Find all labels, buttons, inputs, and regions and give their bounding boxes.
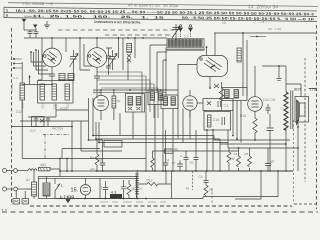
svg-text:•C2a: •C2a: [60, 107, 67, 111]
IF transformer IFT3: [222, 88, 247, 101]
right verticals: [243, 33, 247, 96]
mid-right verticals: [233, 101, 241, 143]
speaker box: [295, 97, 309, 126]
svg-text:45 m·6394 42 45 35 45)ʍ: 45 m·6394 42 45 35 45)ʍ: [128, 3, 179, 9]
antenna symbol: [22, 19, 25, 30]
filter choke L5: [136, 172, 138, 199]
junction dots V1 top: [30, 37, 53, 53]
nested corners right of IFT1: [150, 45, 167, 92]
svg-text:50. ·5·50·25 50·50·25·25·50·50: 50. ·5·50·25 50·50·25·25·50·50·25·50 5. …: [182, 16, 314, 22]
label C1: [100, 186, 103, 190]
capacitor under V1: [49, 74, 55, 85]
trimmer under V3: [214, 84, 219, 88]
chassis dashed bottom line: [30, 205, 292, 207]
coil value labels: [10, 76, 70, 109]
svg-text:C18: C18: [213, 118, 219, 122]
stepped bus wires center: [93, 72, 166, 118]
coil L3: [52, 84, 57, 100]
IF transformer IFT2: [126, 94, 145, 113]
resistor R1: [38, 163, 60, 171]
V3 left grid lead: [178, 65, 197, 101]
IF transformer IFT1 winding: [127, 44, 132, 53]
switch lamp branch: [55, 178, 60, 198]
long vertical x88: [89, 98, 103, 140]
transformer top leads: [286, 84, 316, 97]
dashed vertical x212: [211, 188, 213, 204]
label R13: [139, 179, 153, 191]
svg-text:ks: ks: [186, 187, 190, 191]
variable capacitor VC2: [109, 50, 116, 70]
V4 label: [93, 91, 101, 95]
tube V3: [197, 33, 228, 88]
capacitor C10: [163, 130, 168, 171]
osc section lower windings: [161, 95, 178, 109]
mains terminal 1: [3, 169, 29, 173]
rail y151: [173, 150, 239, 152]
tube V4: [93, 90, 108, 120]
junction dots lower right: [238, 143, 299, 172]
capacitor C6: [265, 148, 271, 171]
hatched block 2 under V2: [68, 74, 74, 81]
hatched block under V2: [59, 74, 65, 81]
AVC wire: [262, 66, 286, 84]
labels R above rail: [234, 152, 249, 156]
svg-text:10.: 10.: [222, 21, 227, 25]
svg-text:4xC13a: 4xC13a: [52, 127, 63, 131]
wire top of IF cans: [93, 89, 166, 91]
table row 2 values: [6, 14, 314, 22]
mains transformer primary winding: [43, 177, 50, 199]
svg-text:4.3: 4.3: [111, 190, 116, 194]
resistor Rd zigzag below rail: [204, 185, 208, 197]
label C4d: [199, 175, 203, 179]
mains coil small: [28, 169, 37, 171]
junction bottom dots: [29, 76, 53, 85]
capacitor C4b: [103, 181, 108, 199]
svg-text:C·x: C·x: [224, 104, 229, 108]
svg-text:M1: M1: [190, 161, 194, 165]
wire antenna to caps: [24, 29, 36, 31]
long vertical x72: [71, 121, 73, 171]
output transformer T2 primary: [284, 92, 288, 130]
pencil label 10: [222, 20, 265, 25]
svg-text:Condensatorerna se ant i affer: Condensatorerna se ant i afferati Skrift…: [94, 20, 141, 25]
nested bus rail C: [99, 122, 298, 148]
wire top rail RF: [24, 37, 167, 39]
svg-text:R13: R13: [147, 179, 153, 183]
svg-text:1.3: 1.3: [184, 35, 189, 39]
svg-text:C4x C2x: C4x C2x: [263, 98, 276, 102]
oscillator coil L9: [166, 35, 205, 51]
svg-text:0: 0: [6, 14, 8, 18]
svg-text:FT: FT: [172, 161, 176, 165]
pencil dashes bottom: [100, 201, 166, 203]
svg-text:R): R): [210, 188, 213, 192]
tube V6: [248, 66, 263, 118]
label FT: [172, 161, 176, 165]
capacitor C13: [34, 117, 38, 127]
osc box left wire: [166, 47, 178, 90]
junction dot AVC: [278, 65, 280, 67]
wire coil outputs row: [12, 104, 89, 127]
table left tick: [3, 7, 5, 17]
tuning gang dashed link upper: [58, 29, 174, 31]
svg-text:—11. 25. 1.50. 150. 25.: —11. 25. 1.50. 150. 25. 1. 15: [24, 14, 164, 20]
resistor Ra: [95, 140, 99, 171]
rail y158: [22, 158, 146, 160]
speaker labels: [294, 88, 317, 92]
coil L1: [20, 62, 25, 110]
capacitor box C17: [32, 117, 45, 127]
label C8: [99, 159, 103, 163]
label Rd: [210, 188, 213, 192]
label C4c: [165, 159, 169, 163]
top border line: [8, 3, 318, 7]
svg-text:C12: C12: [16, 110, 22, 114]
grid cap wires V1: [31, 50, 52, 74]
resistor R11: [237, 48, 241, 62]
junction dots V2: [79, 37, 98, 39]
wire VC1 bottom: [58, 70, 74, 80]
wire bottom-left elbow: [22, 75, 53, 85]
junction dots IF rail: [118, 37, 144, 39]
capacitor C4c: [121, 180, 126, 199]
junction row under det box: [92, 129, 214, 143]
label 15: [71, 188, 79, 194]
junction dots rail y158: [59, 126, 89, 160]
svg-text:40Ω: 40Ω: [40, 163, 47, 167]
svg-text:C4: C4: [165, 159, 169, 163]
table row 1 values: [6, 9, 314, 17]
svg-text:50: 50: [117, 99, 121, 103]
svg-text:e6: e6: [271, 160, 275, 164]
mains line to rail: [59, 170, 61, 173]
chassis dashed border right outer: [316, 25, 318, 209]
det load box: [204, 112, 231, 131]
IFT1 trimmer marks: [127, 54, 131, 62]
output transformer core: [291, 91, 293, 130]
vline x196: [195, 130, 197, 151]
mains choke AJ: [26, 171, 37, 199]
capacitor C4d below rail: [204, 171, 209, 185]
pencil dash-dot mark: [268, 28, 281, 30]
svg-text:Ra: Ra: [90, 156, 94, 160]
small resistor x168: [151, 151, 173, 171]
svg-text:P.L.: P.L.: [58, 184, 65, 188]
mains long rail: [60, 170, 95, 172]
svg-text:C17: C17: [30, 129, 36, 133]
junction dots on y90: [100, 89, 161, 91]
coil L2: [40, 84, 45, 100]
mains terminal 2: [3, 187, 27, 191]
label 4.3: [111, 190, 116, 194]
terminal dots column: [13, 58, 15, 69]
capacitor C13b: [46, 117, 50, 127]
resistor R16 zigzag: [253, 118, 257, 140]
rectifier lamp: [80, 178, 90, 198]
wire coil L1 tail: [21, 100, 23, 159]
table rule middle: [4, 13, 317, 17]
chassis dashed line x291: [293, 120, 295, 204]
verticals to mains rail: [60, 159, 67, 177]
resistor RW zigzag above rail: [227, 148, 231, 171]
svg-text:R1: R1: [234, 152, 238, 156]
vline x171 low: [171, 171, 173, 199]
capacitor right of V6: [266, 104, 271, 114]
pencil note top margin: [22, 0, 278, 10]
junction dot right rail: [242, 32, 258, 37]
svg-text:a3c: a3c: [90, 167, 95, 171]
IF transformer IFT2b windings: [148, 90, 166, 105]
dashed vline x192: [192, 171, 194, 190]
power return rail: [55, 198, 203, 200]
stepped corner left: [62, 149, 100, 159]
svg-text:(8): (8): [132, 187, 136, 191]
fuse feed wires: [16, 191, 25, 199]
resistor R13 zigzag: [139, 171, 172, 186]
svg-text:10: 10: [139, 187, 143, 191]
svg-text:W: W: [232, 157, 235, 161]
resistor R8 zigzag: [127, 180, 131, 199]
table rule top: [4, 7, 317, 11]
IF strip verticals: [119, 38, 136, 80]
wire left column: [38, 38, 42, 80]
antenna arrow 2: [34, 25, 37, 28]
side capacitor C5: [106, 48, 112, 75]
tuning gang dashed link lower: [105, 34, 171, 36]
corner dots: [2, 209, 7, 210]
label C6: [271, 160, 275, 164]
nested rect mid: [104, 141, 122, 148]
right rail tick and dot: [250, 36, 266, 38]
capacitor under V2: [94, 76, 100, 98]
V2 grid wires: [80, 38, 92, 70]
fuse box F1: [13, 199, 20, 205]
trimmer X1: [40, 119, 44, 122]
mid verticals: [120, 100, 228, 171]
resistor Rb zigzag: [237, 148, 241, 171]
svg-text:C4: C4: [199, 175, 203, 179]
capacitor C2: [34, 28, 39, 38]
oscillator input terminal A: [179, 25, 183, 39]
svg-text:8ΩT: 8ΩT: [294, 88, 302, 92]
resistor R7 zigzag: [219, 82, 223, 110]
junction dots mid right: [232, 135, 256, 141]
label Ra: [90, 156, 95, 171]
labels near V6: [240, 98, 276, 118]
svg-text:A.F.1: A.F.1: [93, 91, 101, 95]
cap labels: [180, 154, 194, 165]
capacitor hang C1y: [194, 151, 199, 171]
chassis arrow: [66, 200, 70, 203]
capacitor hang C1x: [184, 151, 189, 171]
label R8: [132, 187, 136, 191]
svg-text:AJ: AJ: [26, 178, 30, 182]
svg-text:C·4: C·4: [13, 76, 18, 80]
svg-text:24 25½ʌʌ 34: 24 25½ʌʌ 34: [248, 3, 278, 10]
coil L4: [65, 84, 70, 100]
svg-text:C: C: [180, 154, 183, 158]
svg-text:R8: R8: [245, 152, 249, 156]
oscillator input terminal B: [189, 25, 193, 39]
label ks: [186, 187, 190, 191]
chassis dashed line inner right: [304, 58, 306, 182]
outer bottom dashed border: [2, 211, 318, 213]
svg-text:C8: C8: [99, 159, 103, 163]
label P.L.: [58, 184, 65, 188]
capacitor C1: [28, 30, 33, 38]
svg-text:4×C2a: 4×C2a: [10, 83, 14, 92]
ground: [44, 21, 50, 28]
chassis dashed border left: [11, 28, 13, 205]
junction dots bottom rail: [84, 170, 147, 199]
bus segment y151 left: [81, 121, 122, 151]
capacitor C4c mid: [177, 161, 183, 172]
tube V2: [87, 38, 107, 76]
resistor Rc zigzag: [248, 148, 252, 171]
tube V5: [183, 90, 197, 118]
svg-text:15.: 15.: [71, 188, 79, 194]
labels C12 C17: [16, 107, 67, 134]
label RW: [232, 157, 235, 161]
trimmer stack left of osc: [172, 24, 180, 40]
junction dots under V3: [206, 46, 211, 89]
capacitor C14: [267, 114, 274, 171]
detector box: [203, 99, 233, 111]
dash-dot enclosure mains filter: [43, 134, 70, 136]
svg-text:3111: 3111: [41, 102, 45, 109]
junction dot transformer: [297, 126, 299, 128]
svg-text:17Ω: 17Ω: [310, 88, 317, 92]
junction dots mains rail: [59, 170, 221, 172]
variable capacitor VC1: [70, 50, 77, 70]
caption line: [94, 20, 141, 25]
nested bus rail B: [96, 122, 286, 171]
label L+61: [60, 195, 74, 199]
transformer bottom leads: [286, 122, 298, 171]
svg-text:1: 1: [6, 9, 8, 13]
bottom right return wires: [203, 171, 278, 199]
resistor R10: [165, 148, 180, 154]
capacitor C8: [100, 140, 106, 171]
dashed corner step bottom right: [294, 203, 316, 205]
svg-text:—·4: —·4: [258, 20, 265, 24]
coil box outline: [38, 81, 74, 104]
table rule bottom: [4, 18, 317, 22]
dark terminal strip: [110, 194, 122, 198]
nested bus rail A: [93, 98, 290, 140]
right top rail: [214, 32, 316, 34]
power unit box: [39, 177, 137, 199]
tube V1: [43, 38, 62, 74]
svg-text:(1: (1: [100, 186, 103, 190]
fuse box F2: [22, 199, 29, 205]
resistor R5: [112, 90, 116, 120]
